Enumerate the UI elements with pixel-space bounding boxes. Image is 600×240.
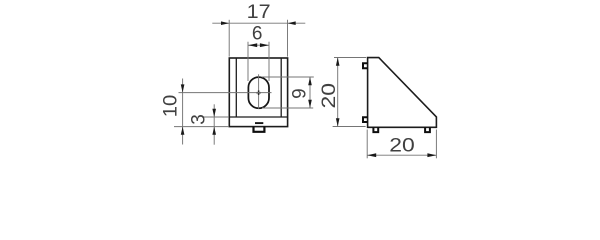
dimension 20 right line xyxy=(337,58,339,127)
slot center cross xyxy=(256,90,261,95)
svg-text:20: 20 xyxy=(319,83,340,109)
svg-text:6: 6 xyxy=(252,23,263,44)
svg-text:10: 10 xyxy=(161,95,182,118)
slot vertical centerline xyxy=(258,74,260,109)
dimension 6 line xyxy=(248,44,269,46)
svg-text:3: 3 xyxy=(189,114,210,125)
front view inner wall right xyxy=(280,58,282,117)
front view outer outline xyxy=(229,58,287,127)
dimension 6 extension lines xyxy=(248,42,269,81)
dimension 9 extension lines xyxy=(262,77,314,108)
dimension 9 arrows xyxy=(308,77,312,108)
front view base top edge xyxy=(229,116,287,118)
dimension 3 arrows xyxy=(212,109,216,135)
dimension 9 line xyxy=(309,77,311,108)
dimension 6 arrows xyxy=(248,43,269,47)
side view bottom foot left xyxy=(373,127,378,132)
dimension 17 line xyxy=(212,22,305,24)
front view slot lug hidden bar xyxy=(255,122,263,124)
svg-text:20: 20 xyxy=(389,135,415,156)
front view inner wall left xyxy=(235,58,237,117)
svg-text:9: 9 xyxy=(290,88,311,99)
dimension 10 arrows xyxy=(181,84,185,134)
dimension 20 bottom arrows xyxy=(367,153,436,157)
dimension 20 right extension lines xyxy=(333,58,367,127)
dimension 10 line with tails xyxy=(182,79,184,145)
dimension 10 bottom extension line xyxy=(174,126,229,128)
svg-text:17: 17 xyxy=(247,2,271,23)
dimension 3 top extension stub xyxy=(202,116,229,118)
dimension 20 right arrows xyxy=(336,58,340,127)
dimension 3 line with tails xyxy=(213,104,215,144)
side view outline xyxy=(368,58,437,128)
side view left tab lower xyxy=(363,117,368,122)
dimension 17 arrows xyxy=(221,21,296,25)
dimension 17 extension lines xyxy=(229,20,287,57)
dimension 20 bottom extension lines xyxy=(367,130,436,159)
dimension 20 bottom line xyxy=(367,154,436,156)
dimension 10 top extension line through slot center xyxy=(179,92,272,94)
front view bottom lug xyxy=(254,127,265,132)
slot obround xyxy=(248,77,269,108)
side view left tab upper xyxy=(363,63,368,68)
side view bottom foot right xyxy=(425,127,430,132)
